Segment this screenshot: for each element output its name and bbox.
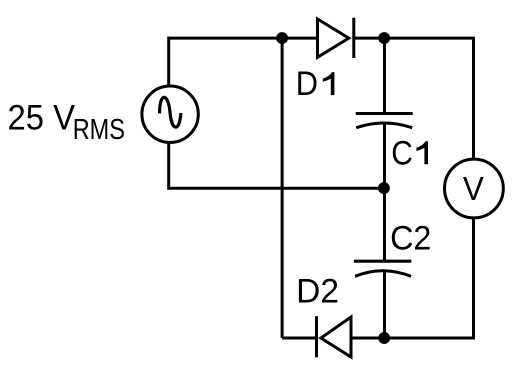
svg-text:25 V: 25 V (8, 99, 76, 138)
svg-text:RMS: RMS (73, 114, 125, 146)
svg-text:C: C (391, 134, 413, 172)
svg-text:V: V (463, 170, 484, 207)
svg-text:D2: D2 (296, 273, 339, 311)
svg-text:D: D (296, 65, 318, 103)
svg-text:C2: C2 (390, 220, 431, 258)
